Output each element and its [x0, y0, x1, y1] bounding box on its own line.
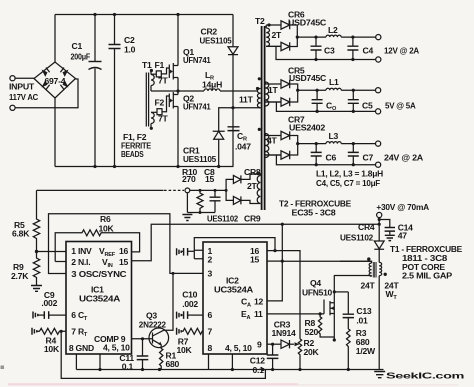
- svg-text:C1: C1: [72, 41, 83, 51]
- return line row3: [276, 155, 375, 165]
- svg-text:1.0: 1.0: [124, 45, 136, 55]
- svg-text:47: 47: [398, 231, 408, 241]
- svg-text:680: 680: [166, 359, 180, 369]
- svg-text:CO: CO: [326, 101, 337, 113]
- svg-text:12V @ 2A: 12V @ 2A: [384, 46, 419, 56]
- wire pin15 to +30V rail: [132, 224, 380, 261]
- winding 1T secondary: [266, 82, 269, 106]
- svg-text:CA: CA: [241, 297, 251, 309]
- winding 2T secondary: [267, 23, 270, 26]
- resistor R7: [177, 328, 182, 335]
- svg-text:C3: C3: [324, 46, 335, 56]
- svg-text:UES2402: UES2402: [289, 123, 325, 133]
- svg-text:6 CT: 6 CT: [71, 310, 88, 322]
- svg-text:11: 11: [254, 309, 263, 319]
- svg-text:10K: 10K: [99, 224, 115, 234]
- svg-text:UES1102: UES1102: [340, 233, 373, 243]
- ground at R10: [182, 215, 192, 221]
- svg-text:200μF: 200μF: [71, 52, 91, 62]
- capacitor C13: [347, 292, 349, 329]
- diode CR1: [213, 131, 225, 139]
- out line row1: [297, 36, 326, 38]
- wire pin7 loop to ground rail: [61, 331, 265, 378]
- svg-text:L1, L2, L3 = 1.8μH: L1, L2, L3 = 1.8μH: [316, 169, 383, 179]
- transformer T1: [367, 257, 370, 260]
- capacitor C3: [314, 36, 317, 39]
- node out row3: [296, 142, 299, 145]
- IC1 box: [66, 242, 132, 355]
- T1 core: [146, 73, 148, 127]
- svg-text:1/2W: 1/2W: [356, 346, 376, 356]
- bottom rail: [55, 166, 234, 168]
- ferrite bead F1: [156, 71, 161, 77]
- svg-text:UFN741: UFN741: [183, 102, 211, 112]
- MOSFET Q2: [168, 94, 170, 108]
- svg-text:2 N.I.: 2 N.I.: [71, 257, 90, 267]
- svg-text:UES1105: UES1105: [183, 154, 216, 164]
- ground R9: [36, 280, 38, 285]
- svg-text:EA: EA: [241, 309, 250, 321]
- winding 2T CR8/CR9: [257, 174, 260, 204]
- svg-text:24T: 24T: [361, 281, 376, 291]
- svg-text:7 RT: 7 RT: [71, 326, 88, 338]
- capacitor at IC2 pin2: [177, 248, 182, 255]
- svg-text:UFN741: UFN741: [183, 55, 211, 65]
- terminal row3 +: [376, 141, 381, 146]
- node open terminal: [185, 188, 190, 193]
- IC2 ground drops: [209, 354, 233, 370]
- svg-text:C10: C10: [182, 290, 197, 300]
- svg-text:15: 15: [250, 255, 260, 265]
- svg-text:2N2222: 2N2222: [139, 319, 166, 329]
- capacitor C12: [272, 344, 274, 369]
- svg-text:1T: 1T: [268, 85, 279, 95]
- svg-text:5V @ 5A: 5V @ 5A: [385, 101, 416, 111]
- capacitor C14: [379, 220, 390, 228]
- svg-text:16: 16: [119, 246, 129, 256]
- svg-text:1 INV: 1 INV: [71, 246, 92, 256]
- svg-text:F1: F1: [155, 60, 165, 70]
- svg-text:520: 520: [305, 327, 319, 337]
- svg-text:0.1: 0.1: [253, 365, 265, 375]
- return line row2: [276, 102, 375, 111]
- wire node to CR8/9 anodes: [190, 189, 226, 191]
- capacitor C6: [315, 142, 318, 145]
- svg-text:UC3524A: UC3524A: [79, 294, 120, 304]
- ground at rail end: [374, 372, 385, 378]
- bottom ground rail: [76, 369, 383, 371]
- svg-text:3 OSC/SYNC: 3 OSC/SYNC: [71, 269, 126, 279]
- diode CR7b: [266, 144, 298, 160]
- bridge diode BL: [42, 80, 48, 87]
- svg-text:VIN: VIN: [102, 257, 113, 269]
- terminal row3 -: [376, 162, 381, 167]
- svg-text:C7: C7: [363, 153, 374, 163]
- svg-text:C4: C4: [363, 46, 374, 56]
- svg-text:Q4: Q4: [310, 278, 321, 288]
- svg-text:UC3524A: UC3524A: [214, 285, 253, 295]
- svg-text:7T: 7T: [158, 114, 169, 124]
- svg-text:F2: F2: [155, 98, 165, 108]
- wire bridge top to top rail: [54, 15, 56, 63]
- svg-text:24V @ 2A: 24V @ 2A: [384, 153, 423, 163]
- top rail: [55, 14, 233, 16]
- input terminal upper: [10, 76, 15, 81]
- diode CR8: [226, 175, 241, 190]
- wire pin9 to Q3 base: [132, 338, 153, 340]
- svg-text:USD745C: USD745C: [288, 18, 326, 28]
- diode CR9: [226, 190, 241, 204]
- capacitor C8: [214, 190, 216, 212]
- capacitor C4: [351, 36, 354, 39]
- svg-text:.002: .002: [182, 299, 198, 309]
- capacitor Co: [316, 89, 319, 92]
- node midpoint Lr: [176, 89, 179, 92]
- winding F2 7T: [151, 113, 154, 129]
- svg-text:C6: C6: [326, 153, 337, 163]
- input terminal lower: [10, 105, 15, 110]
- resistor R5: [33, 190, 39, 251]
- scan artifact: [1, 366, 5, 370]
- svg-text:BEADS: BEADS: [121, 149, 144, 159]
- wire pin16 to R2: [267, 251, 300, 339]
- terminal row1 +: [376, 35, 381, 40]
- IC2 box: [203, 242, 267, 354]
- svg-text:2T: 2T: [272, 30, 283, 40]
- wire to C13: [334, 291, 348, 293]
- svg-text:R6: R6: [100, 214, 111, 224]
- drain vertical: [333, 275, 335, 340]
- node Q2 source bottom rail: [176, 165, 179, 168]
- svg-text:117V AC: 117V AC: [9, 92, 38, 102]
- bridge diode BR: [63, 80, 69, 87]
- bridge diode TR: [63, 70, 69, 77]
- wire Q3 collector to sync: [164, 273, 173, 330]
- svg-text:EC35 - 3C8: EC35 - 3C8: [292, 208, 336, 218]
- svg-text:4, 5, 10: 4, 5, 10: [225, 343, 252, 353]
- wire pin1 INV: [37, 251, 67, 253]
- svg-text:10K: 10K: [177, 345, 193, 355]
- MOSFET Q1: [168, 65, 170, 79]
- capacitor C1: [94, 15, 96, 167]
- node +30 branch IC2: [281, 223, 284, 226]
- capacitor Cr snubber: [228, 127, 240, 131]
- dashed wire: [164, 189, 184, 191]
- wire sense line to R5: [37, 189, 164, 191]
- node C2 bottom: [113, 165, 116, 168]
- svg-text:2T: 2T: [247, 181, 258, 191]
- wire pin11 to Q4 gate: [267, 313, 324, 315]
- svg-text:11T: 11T: [239, 95, 254, 105]
- bridge diode TL: [42, 70, 48, 77]
- scan smear: [8, 383, 298, 385]
- svg-text:4, 5, 10: 4, 5, 10: [103, 343, 130, 353]
- node C1 top: [93, 13, 96, 16]
- svg-text:20K: 20K: [304, 347, 320, 357]
- T2 core: [262, 26, 265, 210]
- wire F1 bottom to midpoint: [151, 90, 178, 92]
- svg-text:T2: T2: [255, 16, 265, 26]
- wire input to bridge: [15, 77, 34, 79]
- capacitor C7: [352, 142, 355, 145]
- svg-text:T1: T1: [142, 60, 152, 70]
- svg-text:C4, C5, C7 = 10μF: C4, C5, C7 = 10μF: [316, 178, 380, 188]
- wire pin2 stub: [55, 261, 66, 263]
- svg-text:.002: .002: [41, 298, 57, 308]
- svg-text:15: 15: [205, 174, 215, 184]
- svg-text:3: 3: [208, 268, 213, 278]
- svg-text:UFN510: UFN510: [302, 288, 332, 298]
- winding 11T primary: [257, 89, 260, 108]
- wiper arrow into R2: [294, 342, 300, 346]
- svg-text:2.7K: 2.7K: [11, 271, 29, 281]
- diode CR6a: [266, 21, 297, 37]
- resistor R8: [319, 312, 322, 315]
- svg-text:6: 6: [208, 310, 213, 320]
- wire node down to ground: [186, 193, 188, 213]
- resistor R1: [160, 345, 163, 370]
- wire +30 line from pin15 area: [282, 260, 371, 262]
- node out row1: [296, 36, 299, 39]
- capacitor C2: [114, 15, 116, 167]
- svg-text:C2: C2: [124, 35, 135, 45]
- potentiometer R2: [298, 339, 301, 370]
- bridge rectifier 697-4: [34, 62, 76, 98]
- diode CR6b: [266, 37, 297, 51]
- svg-text:8: 8: [208, 343, 213, 353]
- svg-text:UES1102: UES1102: [207, 214, 238, 224]
- wire input lower to bridge right: [15, 79, 78, 108]
- svg-text:8 GND: 8 GND: [69, 343, 94, 353]
- diode CR7a: [266, 131, 298, 143]
- wire 11T bottom to CR1: [219, 108, 261, 131]
- svg-text:CR9: CR9: [244, 214, 261, 224]
- node T1 top phase dot: [150, 69, 153, 72]
- node C2 top: [113, 13, 116, 16]
- node F2 bottom phase dot: [150, 127, 153, 130]
- node Q1 drain top rail: [176, 13, 179, 16]
- svg-text:12: 12: [254, 297, 264, 307]
- node R5/R9: [35, 250, 38, 253]
- svg-text:L2: L2: [328, 25, 338, 35]
- terminal row1 -: [376, 57, 381, 62]
- wire R10/C8 bottom: [187, 212, 215, 214]
- svg-text:WT: WT: [386, 289, 398, 301]
- diode CR5a: [266, 80, 298, 90]
- svg-text:1N914: 1N914: [272, 328, 297, 338]
- svg-text:CR4: CR4: [358, 222, 375, 232]
- svg-text:15: 15: [119, 257, 129, 267]
- svg-text:.01: .01: [356, 316, 368, 326]
- diode CR5b: [266, 90, 298, 106]
- wire IC2 pin1/2 loop over top to pin16: [194, 238, 275, 259]
- ferrite bead F2: [157, 109, 162, 115]
- svg-text:2.5 MIL GAP: 2.5 MIL GAP: [402, 271, 453, 281]
- return line row1: [276, 47, 376, 60]
- capacitor C11: [141, 337, 144, 340]
- node CR2/11T junction: [231, 106, 234, 109]
- terminal row2 -: [376, 109, 381, 114]
- svg-text:INPUT: INPUT: [9, 82, 35, 92]
- winding 4T secondary: [266, 134, 269, 158]
- svg-text:7: 7: [208, 326, 213, 336]
- node R4 pin7: [60, 330, 63, 333]
- svg-text:6.8K: 6.8K: [12, 229, 30, 239]
- wire bridge bottom down: [54, 98, 56, 167]
- resistor R3: [346, 329, 350, 370]
- svg-text:.047: .047: [235, 142, 251, 152]
- svg-text:4T: 4T: [267, 136, 278, 146]
- terminal row2 +: [376, 88, 381, 93]
- svg-text:SeekIC.com: SeekIC.com: [386, 371, 465, 381]
- resistor R4: [32, 328, 37, 335]
- svg-text:C13: C13: [356, 306, 371, 316]
- wire OSC sync line: [49, 214, 204, 274]
- svg-text:L1: L1: [329, 77, 339, 87]
- svg-text:14μH: 14μH: [202, 80, 222, 90]
- svg-text:7T: 7T: [158, 76, 169, 86]
- node out row2: [296, 89, 299, 92]
- svg-text:697-4: 697-4: [45, 76, 66, 86]
- svg-text:2: 2: [208, 255, 213, 265]
- capacitor C5: [352, 89, 355, 92]
- svg-text:+30V @ 70mA: +30V @ 70mA: [376, 202, 429, 212]
- svg-text:9: 9: [257, 339, 262, 349]
- wire T1 left bottom to Q4 drain: [334, 275, 371, 278]
- svg-text:C5: C5: [362, 101, 373, 111]
- resistor R10: [197, 190, 203, 212]
- svg-text:USD745C: USD745C: [289, 73, 326, 83]
- svg-text:UES1105: UES1105: [200, 35, 232, 45]
- wire T1 right bottom to ground: [378, 276, 380, 370]
- IC1 ground drop: [76, 354, 100, 370]
- wire pin9 stub: [267, 343, 281, 345]
- wire pin15 stub: [267, 260, 282, 262]
- winding F1 7T: [151, 71, 154, 92]
- svg-text:0.1: 0.1: [122, 361, 134, 371]
- node CR1 bottom: [217, 165, 220, 168]
- resistor R9: [33, 252, 39, 281]
- node C1 bottom: [93, 165, 96, 168]
- svg-text:L3: L3: [329, 131, 339, 141]
- wire Vin vertical to pin12: [267, 224, 282, 301]
- svg-text:270: 270: [182, 174, 196, 184]
- svg-text:10K: 10K: [44, 344, 60, 354]
